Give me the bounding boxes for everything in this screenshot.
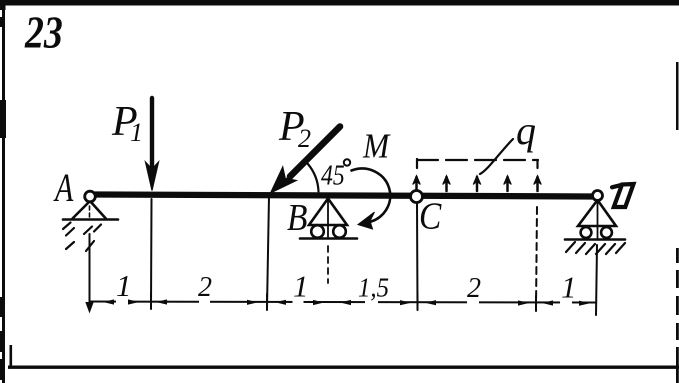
distributed load right corner tick bbox=[536, 161, 538, 172]
svg-text:q: q bbox=[516, 108, 536, 153]
support B rollers bbox=[311, 225, 324, 238]
moment M arc bbox=[352, 169, 391, 229]
dimension extension line at P1 bbox=[150, 199, 153, 308]
dimension extension line at D bbox=[596, 245, 597, 315]
support B center line bbox=[327, 200, 329, 238]
dimension extension line at q end bbox=[536, 207, 537, 308]
svg-text:23: 23 bbox=[24, 7, 63, 57]
distributed load q dashed top line bbox=[417, 159, 538, 161]
svg-text:45: 45 bbox=[321, 158, 345, 191]
node C circle bbox=[411, 191, 423, 203]
svg-text:1: 1 bbox=[130, 118, 143, 147]
support A ground line bbox=[63, 218, 118, 221]
support D ground line bbox=[565, 238, 625, 241]
frame right border bbox=[676, 62, 679, 383]
svg-text:1: 1 bbox=[116, 268, 132, 303]
support D center line bbox=[597, 200, 599, 239]
support D ground hatching bbox=[566, 242, 625, 254]
dimension extension line at C bbox=[416, 203, 419, 308]
frame left border bbox=[0, 0, 6, 383]
dimension chain line bbox=[90, 302, 597, 303]
svg-text:2: 2 bbox=[298, 124, 311, 153]
label D bbox=[612, 184, 634, 207]
q leader line bbox=[480, 139, 513, 174]
force P2 arrow (45 deg) bbox=[271, 127, 340, 193]
dimension arrowheads bbox=[103, 299, 590, 305]
svg-text:M: M bbox=[362, 127, 391, 166]
support D rollers bbox=[581, 227, 592, 238]
support A center line bbox=[89, 206, 91, 217]
svg-text:C: C bbox=[419, 195, 442, 237]
distributed load up-arrows bbox=[413, 176, 542, 192]
svg-text:1: 1 bbox=[293, 269, 309, 304]
node A pin circle bbox=[85, 191, 96, 202]
dimension extension line at P2 bbox=[267, 196, 269, 308]
support A (pin): triangle bbox=[73, 201, 106, 219]
svg-text:A: A bbox=[53, 165, 73, 210]
dimension extension line at A bbox=[89, 234, 91, 302]
support B ground line bbox=[300, 237, 357, 240]
node D pin circle bbox=[593, 191, 603, 201]
distributed load left corner tick bbox=[416, 159, 418, 168]
svg-text:1,5: 1,5 bbox=[358, 273, 389, 303]
frame bottom border bbox=[8, 345, 679, 369]
label 45deg bbox=[321, 158, 350, 191]
beam A-D bbox=[95, 195, 594, 197]
label P2 bbox=[278, 104, 311, 153]
svg-text:1: 1 bbox=[561, 270, 577, 305]
label P1 bbox=[111, 99, 143, 147]
support B (roller): triangle bbox=[309, 199, 347, 226]
dimension ticks bbox=[151, 293, 536, 311]
support B dashed extension bbox=[327, 246, 329, 283]
frame top border bbox=[3, 0, 679, 6]
svg-text:2: 2 bbox=[467, 273, 481, 304]
support A ground hatching bbox=[63, 223, 101, 252]
svg-text:2: 2 bbox=[198, 272, 212, 303]
force P1 arrow bbox=[146, 98, 159, 191]
45 degree angle arc bbox=[308, 164, 319, 192]
svg-text:B: B bbox=[287, 196, 308, 238]
support D (roller): triangle bbox=[578, 200, 616, 226]
dimension line label gaps bbox=[116, 299, 572, 304]
